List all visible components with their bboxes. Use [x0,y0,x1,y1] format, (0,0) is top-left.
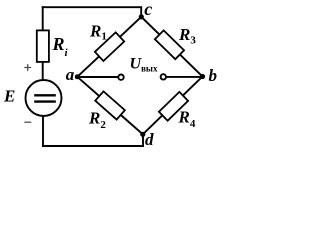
output terminal left (open circle) [118,75,123,80]
wire a to left output terminal [77,76,118,78]
svg-text:b: b [209,66,218,85]
wire diagonal c-b [141,17,202,77]
wire diagonal a-d [77,77,143,135]
svg-text:c: c [144,0,152,19]
svg-text:R2: R2 [88,108,106,131]
svg-text:R1: R1 [89,21,107,42]
wire right output terminal to b [166,76,203,78]
node a junction dot [75,74,80,79]
svg-text:R3: R3 [178,25,196,46]
node d junction dot [140,132,145,137]
node b junction dot [200,74,205,79]
node c junction dot [139,14,144,19]
wire top (from left branch to node c) [43,7,142,16]
resistor R2 [95,91,125,119]
minus sign of source [24,121,31,123]
svg-text:d: d [145,130,154,149]
svg-text:Ri: Ri [52,34,69,59]
resistor R3 [155,30,184,59]
source E equals bars [34,95,56,101]
svg-text:E: E [3,87,15,106]
svg-text:R4: R4 [178,107,196,130]
wire diagonal a-c [77,17,141,77]
source E (DC source circle) [26,80,62,116]
svg-text:Uвых: Uвых [130,55,158,73]
plus sign of source [24,64,31,71]
wire diagonal d-b [143,77,203,135]
resistor R4 [159,92,188,121]
resistor Ri [37,30,49,62]
wire node d stem [142,135,144,147]
wire source bottom to corner [43,116,143,146]
resistor R1 [95,32,124,61]
svg-text:a: a [66,65,75,84]
output terminal right (open circle) [161,74,166,79]
wire left branch vertical [42,7,44,80]
